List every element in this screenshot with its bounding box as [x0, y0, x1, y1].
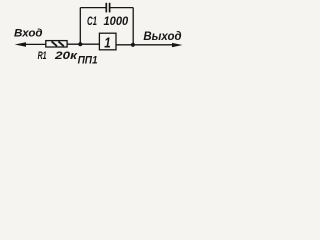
- svg-text:ПП1: ПП1: [78, 55, 98, 67]
- svg-text:Вход: Вход: [14, 28, 43, 40]
- svg-text:R1: R1: [38, 50, 47, 62]
- svg-text:1: 1: [104, 34, 111, 51]
- svg-text:20к: 20к: [54, 50, 79, 62]
- svg-text:Выход: Выход: [143, 31, 181, 43]
- svg-text:C1: C1: [87, 16, 97, 28]
- svg-text:1000: 1000: [104, 16, 129, 28]
